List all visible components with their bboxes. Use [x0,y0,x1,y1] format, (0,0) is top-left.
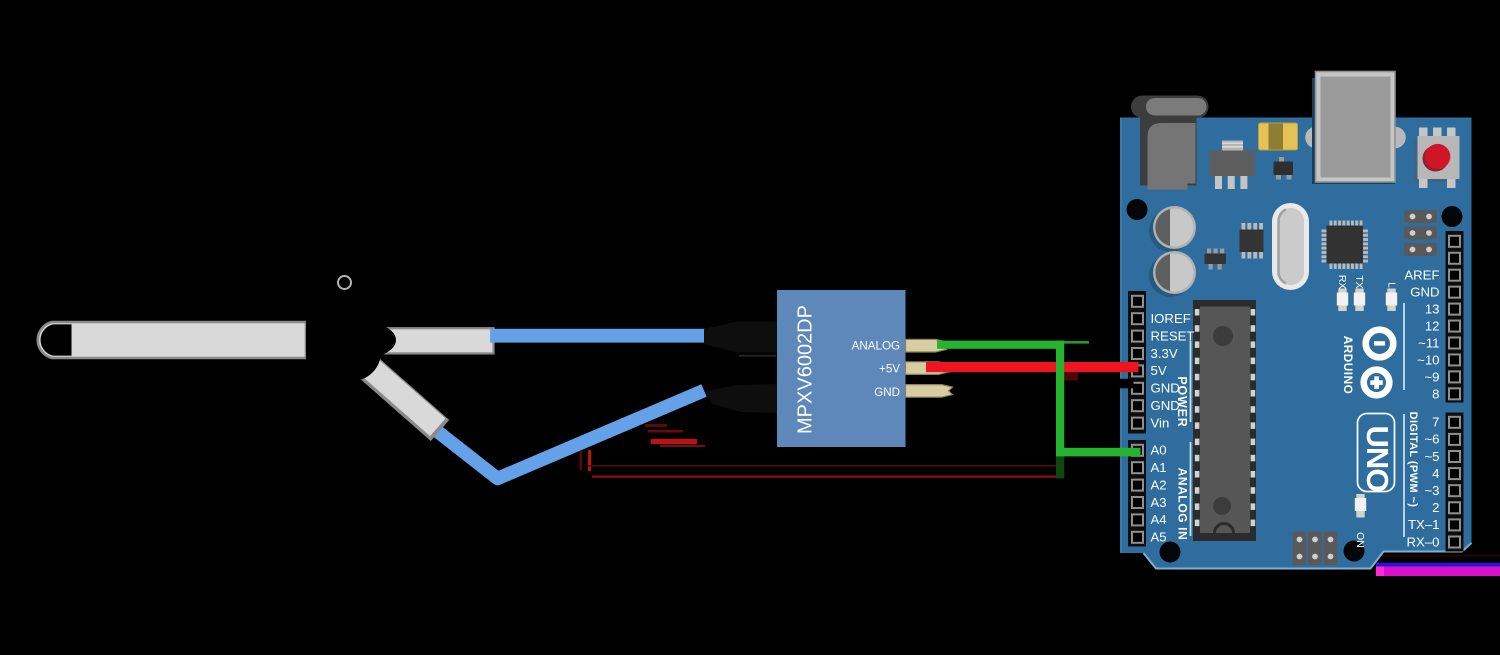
svg-text:4: 4 [1432,466,1439,481]
svg-text:~5: ~5 [1424,449,1439,464]
svg-text:AREF: AREF [1404,268,1439,283]
svg-text:GND: GND [874,386,900,399]
svg-text:L: L [1385,282,1396,288]
svg-text:~3: ~3 [1424,483,1439,498]
svg-text:UNO: UNO [1360,426,1395,492]
svg-text:RESET: RESET [1151,328,1195,343]
svg-text:ARDUINO: ARDUINO [1341,336,1355,395]
svg-text:TX–1: TX–1 [1408,517,1440,532]
svg-text:~11: ~11 [1418,336,1439,351]
svg-text:ANALOG IN: ANALOG IN [1175,468,1189,541]
svg-text:ON: ON [1354,532,1366,548]
svg-text:13: 13 [1425,302,1440,317]
svg-text:~10: ~10 [1417,353,1439,368]
svg-text:A3: A3 [1151,495,1167,510]
svg-text:12: 12 [1425,319,1440,334]
svg-text:~6: ~6 [1424,432,1439,447]
svg-text:A4: A4 [1151,512,1167,527]
svg-text:3.3V: 3.3V [1151,346,1178,361]
svg-text:8: 8 [1432,386,1439,401]
svg-text:A2: A2 [1151,477,1167,492]
svg-text:A5: A5 [1151,530,1167,545]
svg-text:7: 7 [1432,415,1439,430]
svg-text:A0: A0 [1151,443,1167,458]
svg-text:GND: GND [1410,285,1439,300]
svg-text:Vin: Vin [1151,415,1170,430]
svg-text:GND: GND [1151,381,1180,396]
svg-text:~9: ~9 [1424,370,1439,385]
svg-text:5V: 5V [1151,363,1167,378]
svg-text:ANALOG: ANALOG [852,340,900,353]
svg-text:2: 2 [1432,500,1439,515]
svg-text:GND: GND [1151,398,1180,413]
svg-text:TX: TX [1353,275,1365,288]
svg-text:MPXV6002DP: MPXV6002DP [794,305,816,434]
svg-text:IOREF: IOREF [1151,311,1191,326]
svg-text:+5V: +5V [879,363,900,376]
svg-text:A1: A1 [1151,460,1167,475]
svg-text:RX–0: RX–0 [1407,534,1440,549]
svg-text:RX: RX [1336,275,1348,290]
svg-text:DIGITAL (PWM ~): DIGITAL (PWM ~) [1407,412,1419,508]
